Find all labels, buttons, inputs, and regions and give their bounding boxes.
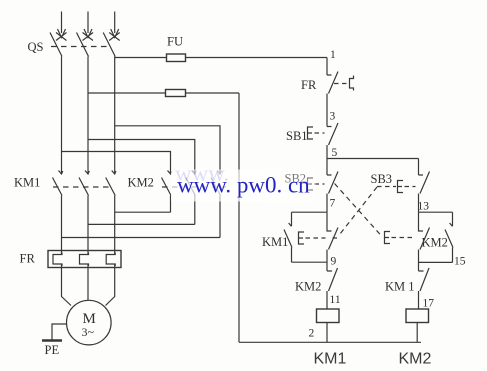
wire parallel bottom left xyxy=(292,261,328,263)
wire control neutral vertical xyxy=(238,93,240,342)
svg-text:FR: FR xyxy=(20,252,36,266)
wire node 5 lead xyxy=(326,145,328,175)
KM2 linkage dashed xyxy=(162,186,226,188)
FR NC contact (control) xyxy=(327,72,338,94)
svg-text:KM2: KM2 xyxy=(128,176,154,190)
contact KM1 NC interlock xyxy=(419,268,430,291)
fuse FU1 xyxy=(167,54,186,62)
FR heater element 1 xyxy=(53,251,62,268)
coil KM2 xyxy=(406,309,429,323)
FR trip symbol xyxy=(350,76,354,91)
svg-text:3: 3 xyxy=(330,111,336,123)
supply arrow L2 xyxy=(84,12,92,38)
watermark wash xyxy=(171,170,264,202)
svg-text:3~: 3~ xyxy=(82,325,95,339)
svg-text:7: 7 xyxy=(330,198,336,210)
ground PE xyxy=(42,339,62,341)
svg-text:15: 15 xyxy=(454,256,466,268)
SB3 interlock NC contact (left branch) xyxy=(327,212,338,249)
contact KM2 NC interlock xyxy=(327,268,338,291)
wire node 2 lead xyxy=(326,323,328,343)
wire phase3 to KM2 pole3 xyxy=(115,126,220,174)
wire phase1 vertical xyxy=(61,57,63,174)
wire node 13 lead xyxy=(418,194,420,213)
wire coil KM2 bottom lead xyxy=(416,323,418,343)
SB3 button actuator xyxy=(398,181,404,193)
wire right branch down xyxy=(418,159,420,176)
svg-text:17: 17 xyxy=(423,298,435,310)
svg-text:1: 1 xyxy=(330,49,336,61)
wire node 7 lead xyxy=(326,194,328,213)
svg-text:KM 1: KM 1 xyxy=(385,280,415,294)
contactor KM2 pole 2 xyxy=(186,171,196,225)
SB3 cross linkage dashed xyxy=(338,187,377,237)
FR trip linkage dashed xyxy=(334,83,347,85)
svg-text:13: 13 xyxy=(418,201,430,213)
wire phase2 vertical xyxy=(87,57,89,174)
wire phase3 vertical xyxy=(114,57,116,174)
wire phase2 to KM2 pole2 xyxy=(88,140,195,174)
svg-text:KM2: KM2 xyxy=(295,280,321,294)
SB2 interlock NC contact (right branch) xyxy=(419,212,430,249)
wire parallel top left xyxy=(292,211,328,213)
FR heater element 3 xyxy=(106,251,115,268)
right interlock dashes xyxy=(392,237,416,239)
contactor KM2 pole 1 xyxy=(162,171,172,213)
wire node 3 lead xyxy=(326,94,328,127)
wire parallel top right xyxy=(419,211,453,213)
svg-text:PE: PE xyxy=(45,343,60,357)
contactor KM1 pole 1 xyxy=(53,171,63,251)
svg-text:9: 9 xyxy=(331,256,337,268)
contactor KM2 pole 3 xyxy=(211,171,221,238)
SB2 cross linkage dashed xyxy=(335,184,383,237)
svg-text:KM2: KM2 xyxy=(399,351,432,368)
wire KM2 pole1 to phase3 column xyxy=(115,211,171,213)
contactor KM1 pole 2 xyxy=(79,171,89,251)
wire node 15 lead xyxy=(418,250,420,272)
contact KM1 aux NO xyxy=(284,212,292,262)
wire FR to motor W xyxy=(106,268,115,306)
svg-text:KM1: KM1 xyxy=(314,351,347,368)
FR heater element 2 xyxy=(80,251,89,268)
fuse FU2 xyxy=(166,90,186,97)
wire fuse2 feed xyxy=(88,92,239,94)
supply arrow L3 xyxy=(111,12,119,38)
SB2 button actuator xyxy=(308,178,314,190)
svg-text:QS: QS xyxy=(28,40,44,54)
thermal relay FR box xyxy=(48,251,121,268)
disconnect switch QS pole 1 xyxy=(50,33,67,57)
wire FR to motor V xyxy=(87,268,89,301)
svg-text:SB1: SB1 xyxy=(286,129,308,143)
wire fuse1 feed xyxy=(115,57,327,59)
supply arrow L1 xyxy=(58,12,66,38)
wire branch top xyxy=(327,158,419,160)
wire node1 lead xyxy=(326,58,328,76)
svg-text:SB3: SB3 xyxy=(371,172,393,186)
motor M1 xyxy=(67,300,112,345)
wire KM2 pole2 to phase2 column xyxy=(88,223,195,225)
disconnect switch QS pole 2 xyxy=(77,33,94,57)
QS linkage dashed xyxy=(51,46,110,48)
svg-text:FR: FR xyxy=(301,78,317,92)
pushbutton SB1 NC contact xyxy=(327,123,338,145)
left interlock dashes xyxy=(306,237,338,239)
pushbutton SB2 NO contact xyxy=(327,172,338,194)
wire FR to motor U xyxy=(62,268,72,306)
contact KM2 aux NO xyxy=(445,212,453,262)
svg-text:11: 11 xyxy=(330,294,341,306)
svg-text:KM1: KM1 xyxy=(262,235,288,249)
left interlock actuator E xyxy=(299,232,305,244)
SB1 button actuator xyxy=(308,127,314,139)
contactor KM1 pole 3 xyxy=(106,171,116,251)
SB3 actuator dashes xyxy=(377,186,416,188)
wire node 17 lead xyxy=(418,291,420,309)
svg-text:5: 5 xyxy=(332,147,338,159)
pushbutton SB3 NO contact xyxy=(419,172,430,194)
right interlock actuator E xyxy=(385,232,391,244)
wire node 9 lead xyxy=(326,250,328,272)
wire KM2 pole3 to phase1 column xyxy=(62,237,221,239)
disconnect switch QS pole 3 xyxy=(103,33,120,57)
svg-text:www. pw0. cn: www. pw0. cn xyxy=(177,173,310,198)
wire phase1 to KM2 pole1 xyxy=(62,152,171,174)
SB1 actuator dashes xyxy=(315,132,325,134)
wire bottom bus xyxy=(239,341,421,343)
KM1 linkage dashed xyxy=(53,186,110,188)
svg-text:FU: FU xyxy=(167,35,183,49)
wire parallel bottom right xyxy=(419,261,453,263)
svg-text:2: 2 xyxy=(309,328,315,340)
SB2 actuator dashes xyxy=(315,183,325,185)
wire node 11 lead xyxy=(326,291,328,309)
coil KM1 xyxy=(317,309,340,323)
wire motor to PE xyxy=(52,324,67,341)
svg-text:KM1: KM1 xyxy=(14,176,40,190)
